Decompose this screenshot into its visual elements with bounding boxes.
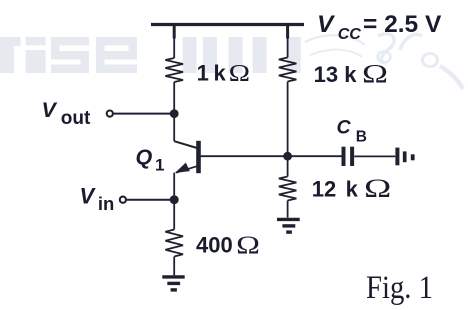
svg-text:CC: CC [338, 26, 362, 43]
svg-text:Ω: Ω [229, 60, 250, 87]
svg-text:out: out [61, 108, 91, 129]
svg-text:12: 12 [312, 177, 336, 202]
svg-text:1: 1 [155, 155, 164, 174]
svg-text:400: 400 [196, 232, 233, 257]
svg-text:Ω: Ω [362, 60, 388, 89]
svg-text:13: 13 [314, 62, 338, 87]
svg-text:= 2.5 V: = 2.5 V [363, 11, 442, 38]
svg-text:Ω: Ω [236, 230, 260, 259]
svg-text:Q: Q [136, 145, 153, 169]
svg-text:V: V [42, 98, 58, 122]
svg-text:k: k [346, 177, 359, 202]
svg-text:Fig. 1: Fig. 1 [366, 270, 433, 306]
svg-text:k: k [344, 62, 357, 87]
svg-text:Ω: Ω [364, 174, 391, 203]
svg-text:1: 1 [197, 61, 209, 86]
svg-text:V: V [80, 184, 97, 209]
svg-text:B: B [356, 128, 367, 145]
svg-text:in: in [98, 193, 114, 214]
svg-text:k: k [214, 61, 227, 86]
svg-text:V: V [317, 11, 336, 38]
svg-text:C: C [337, 117, 352, 139]
